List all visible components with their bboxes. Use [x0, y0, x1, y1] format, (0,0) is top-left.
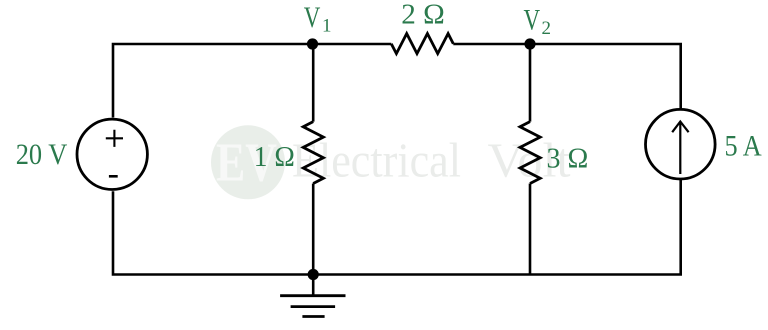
- svg-text:20 V: 20 V: [16, 138, 68, 171]
- watermark logo circle: [211, 125, 285, 199]
- resistor R 2-ohm horizontal: [391, 34, 453, 54]
- svg-text:5 A: 5 A: [725, 130, 762, 163]
- current source arrow: [672, 122, 688, 175]
- resistor R 1-ohm vertical: [303, 122, 323, 184]
- wire node V2 down to 3-ohm resistor: [529, 44, 532, 122]
- wire 3-ohm resistor to bottom rail: [529, 184, 532, 276]
- svg-text:1 Ω: 1 Ω: [254, 141, 295, 173]
- svg-text:V: V: [304, 1, 321, 34]
- voltage source V 20V circle: [77, 119, 147, 189]
- svg-text:2 Ω: 2 Ω: [401, 0, 445, 30]
- node V1 junction dot: [307, 38, 318, 49]
- ground symbol: [280, 275, 345, 317]
- wire node V2 to current source top: [530, 44, 681, 109]
- wire top from V-source to node V1: [113, 44, 313, 118]
- voltage source plus sign: [106, 130, 123, 147]
- wire top node V1 to 2-ohm resistor: [313, 43, 392, 46]
- svg-text:1: 1: [322, 15, 332, 36]
- current source I 5A circle: [646, 109, 716, 179]
- svg-text:2: 2: [542, 18, 552, 39]
- wire node V1 down to 1-ohm resistor: [312, 44, 315, 122]
- wire 1-ohm resistor to ground node: [312, 184, 315, 275]
- resistor R 3-ohm vertical: [520, 122, 540, 184]
- svg-text:V: V: [524, 4, 541, 37]
- voltage source minus sign: [109, 175, 118, 178]
- node V2 junction dot: [524, 38, 535, 49]
- svg-text:3 Ω: 3 Ω: [547, 143, 589, 175]
- ground node junction dot: [308, 269, 319, 280]
- wire current source bottom to bottom rail: [113, 180, 681, 275]
- wire 2-ohm resistor to node V2: [453, 43, 530, 46]
